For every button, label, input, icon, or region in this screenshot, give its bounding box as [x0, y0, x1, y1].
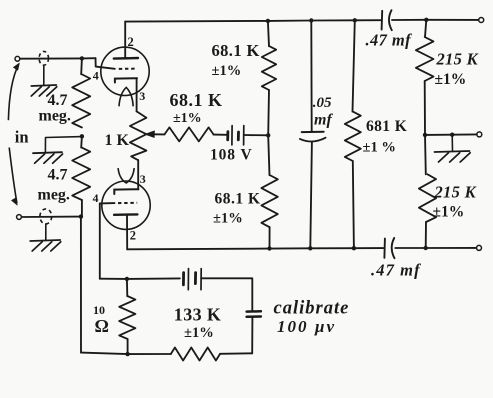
ground lower-left [30, 240, 60, 241]
wiper arrow into R-1K [145, 131, 154, 137]
tube V2 plate [114, 213, 137, 216]
node top rail / R-681K [353, 18, 357, 22]
node mid 4.7meg junction [80, 134, 84, 138]
svg-text:108 V: 108 V [210, 146, 253, 163]
svg-text:681 K: 681 K [366, 118, 407, 135]
resistor R-10ohm [119, 296, 135, 339]
svg-text:2: 2 [130, 229, 136, 243]
wire mid-right node to terminal [425, 133, 477, 136]
node bottom rail / R-68.1K-B [267, 246, 271, 250]
shield ring lower input (dashed) [40, 209, 52, 224]
svg-text:.47 mf: .47 mf [366, 31, 413, 50]
svg-text:215 K: 215 K [434, 182, 477, 201]
wire lower input to left column [22, 216, 81, 218]
resistor R-68.1K-W (horizontal) [165, 127, 214, 141]
wire C-0.05 bottom lead [310, 142, 312, 249]
svg-text:133 K: 133 K [174, 305, 222, 325]
resistor R-681K [345, 112, 361, 161]
svg-text:68.1 K: 68.1 K [170, 90, 223, 110]
svg-text:1 K: 1 K [105, 132, 130, 149]
wire R-10ohm bottom lead [127, 339, 129, 354]
wire bottom rail right of C-0.47 to output terminal [395, 247, 476, 249]
wire calibrate cap to bottom row [251, 318, 253, 354]
resistor R-215K-A [416, 37, 434, 81]
node top rail / C-0.05 [309, 18, 313, 22]
resistor R-133K (horizontal) [171, 348, 220, 361]
wire C-0.05 top lead [310, 21, 312, 132]
svg-text:4.7: 4.7 [48, 92, 68, 109]
wire V1 plate lead pin 2 [124, 22, 126, 58]
tube V1 envelope [101, 47, 149, 95]
svg-text:3: 3 [139, 89, 145, 103]
battery B1 108V [226, 132, 229, 140]
wire battery B1 to 68.1K column [244, 134, 268, 136]
svg-text:in: in [15, 128, 29, 147]
node ground tap [450, 133, 454, 137]
tube V1 plate [114, 57, 138, 60]
svg-text:3: 3 [140, 172, 146, 186]
input terminal lower [17, 215, 22, 220]
svg-text:.05: .05 [313, 95, 332, 111]
node upper input / R-4.7meg-A [80, 56, 84, 60]
svg-text:215 K: 215 K [436, 50, 479, 69]
wire top plate rail (tube V1 plate to output) [125, 20, 380, 21]
wire lower shield to ground [45, 224, 47, 240]
svg-text:meg.: meg. [39, 107, 71, 124]
svg-text:±1%: ±1% [212, 63, 242, 79]
tube V2 heater filament [118, 168, 134, 183]
svg-text:100 µv: 100 µv [277, 317, 336, 336]
capacitor C-0.05 [302, 131, 324, 133]
shield ring upper input (dashed) [39, 51, 48, 65]
resistor R-4.7meg-B [72, 147, 90, 200]
svg-text:2: 2 [128, 35, 134, 49]
tube V1 cathode [115, 78, 137, 82]
wire R-68.1K-B top lead [268, 135, 269, 175]
wire ground tap stub [451, 135, 453, 151]
node bottom rail / R-681K [352, 246, 356, 250]
node top rail / R-215K-A [424, 18, 428, 22]
wire R-681K bottom lead [353, 161, 354, 248]
wire V2 grid lead pin 4 [100, 202, 115, 204]
svg-text:meg.: meg. [38, 186, 70, 203]
svg-text:Ω: Ω [95, 316, 109, 336]
ground upper-left [31, 85, 56, 86]
node lower input junction [79, 214, 83, 218]
svg-text:calibrate: calibrate [274, 299, 350, 319]
svg-text:4: 4 [93, 191, 99, 205]
svg-text:±1%: ±1% [184, 325, 214, 341]
wire V2 cathode lead pin 3 [137, 160, 139, 189]
wire R-215K-B bottom lead [425, 222, 427, 248]
ground-ref terminal right [477, 132, 482, 137]
output terminal upper [479, 18, 484, 23]
input brace lower arc [9, 148, 17, 204]
output terminal lower [477, 245, 482, 250]
tube V1 heater filament [119, 87, 133, 106]
input brace upper arc [8, 65, 18, 121]
svg-text:±1%: ±1% [435, 71, 467, 88]
wire mid junction to ground [45, 137, 82, 152]
resistor R-1K (cathode pot) [130, 111, 147, 160]
resistor R-4.7meg-A [72, 74, 90, 128]
ground mid-left [33, 152, 62, 153]
svg-text:4: 4 [93, 69, 99, 83]
wire R-68.1K-B bottom lead [269, 227, 271, 249]
svg-text:.47 mf: .47 mf [371, 261, 421, 280]
wire R-681K top lead [353, 20, 355, 111]
battery B2 (calibrate) [182, 273, 185, 285]
wire R-68.1K-A top lead [268, 21, 269, 46]
svg-text:±1 %: ±1 % [363, 140, 396, 156]
capacitor C-0.47 lower (series in bottom rail) [383, 239, 386, 258]
node top rail / R-68.1K-A [266, 19, 270, 23]
wire V2 grid column down [99, 203, 101, 278]
svg-text:mf: mf [314, 111, 333, 128]
capacitor C-0.47 upper (series in top rail) [381, 11, 384, 30]
wire R-68.1K-W to battery [214, 134, 227, 136]
svg-text:±1%: ±1% [173, 111, 202, 126]
wire R-10ohm top lead [126, 279, 128, 296]
tube V2 grid (dashed) [118, 202, 137, 204]
svg-text:10: 10 [93, 303, 105, 317]
svg-text:±1%: ±1% [213, 211, 243, 227]
wire battery row left [100, 277, 180, 280]
wire wiper to R-68.1K-W [154, 133, 165, 135]
wire left column to bottom row [80, 217, 82, 353]
node battery row / R-10 [125, 277, 129, 281]
svg-text:4.7: 4.7 [48, 166, 68, 183]
wire V2 plate lead pin 2 to bottom rail [126, 215, 128, 250]
wire R-4.7meg-B bottom lead [81, 200, 83, 217]
wire R-215K-B top lead [424, 135, 427, 174]
tube V2 envelope [102, 181, 150, 229]
resistor R-68.1K-A (upper) [262, 46, 276, 90]
svg-text:68.1 K: 68.1 K [212, 41, 260, 60]
ground right [435, 151, 470, 152]
svg-text:68.1 K: 68.1 K [215, 191, 261, 208]
wire V1 cathode lead pin 3 [136, 78, 138, 111]
resistor R-68.1K-B (lower) [261, 175, 277, 227]
wire R-4.7meg-B top lead [80, 136, 83, 147]
wire upper shield to ground [43, 65, 45, 84]
wire R-68.1K-A bottom lead [267, 90, 270, 135]
node bottom rail / R-215K-B [424, 246, 428, 250]
capacitor C-calibrate [247, 310, 261, 313]
wire R-215K-A top lead [425, 20, 426, 37]
tube V2 cathode [114, 189, 138, 194]
node bottom row / R-10 [125, 352, 129, 356]
wire V1 grid lead pin 4 [96, 58, 115, 69]
node B1 / 68.1K column [266, 133, 270, 137]
wire bottom row right segment [220, 352, 252, 355]
wire upper input to V1 grid [20, 57, 96, 60]
resistor R-215K-B [419, 174, 436, 222]
tube V1 grid (dashed) [119, 68, 137, 70]
wire bottom row left segment [81, 353, 171, 355]
wire R-4.7meg-A top lead [80, 58, 83, 74]
wire battery B2 to calibrate cap [201, 278, 252, 310]
wire R-215K-A bottom lead [424, 81, 426, 135]
node mid-right column [423, 133, 427, 137]
svg-text:±1%: ±1% [433, 204, 465, 221]
wire bottom plate rail (tube V2 plate to output) [127, 248, 383, 249]
wire top rail right of C-0.47 to output terminal [392, 19, 478, 21]
node bottom rail / C-0.05 [308, 246, 312, 250]
input terminal upper [15, 56, 20, 61]
